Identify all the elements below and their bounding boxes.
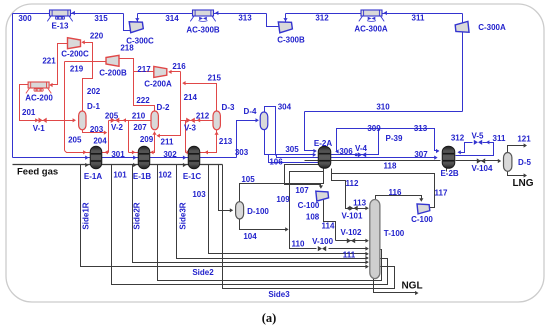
wire stream 305 D-4 bottoms to E-2A	[265, 130, 315, 155]
svg-text:203: 203	[90, 125, 104, 134]
svg-text:215: 215	[208, 74, 222, 83]
wire stream 219 C-200B suction line	[65, 61, 107, 63]
svg-text:307: 307	[414, 150, 428, 159]
wire stream 304 D-4 overhead	[265, 107, 276, 156]
compressor C-200C	[68, 38, 81, 49]
separator D-100	[236, 202, 244, 219]
air cooler AC-300A	[359, 10, 384, 21]
wire stream 108 C-100 outlet	[324, 200, 336, 241]
svg-text:E-1A: E-1A	[84, 172, 102, 181]
svg-text:(a): (a)	[262, 311, 277, 325]
wire stream 221 C-200C discharge to AC-200	[51, 44, 68, 85]
svg-text:107: 107	[295, 186, 309, 195]
svg-text:221: 221	[42, 57, 56, 66]
svg-text:101: 101	[113, 171, 127, 180]
svg-text:309: 309	[367, 124, 381, 133]
valve V-100	[318, 246, 322, 251]
separator D-4	[260, 112, 268, 130]
wire stream 203 D-1 bottoms	[83, 130, 106, 133]
svg-text:T-100: T-100	[384, 229, 405, 238]
svg-text:311: 311	[493, 134, 506, 143]
svg-text:NGL: NGL	[401, 280, 422, 291]
wire stream 310 drop to E-2A	[305, 112, 316, 151]
wire LNG product line	[508, 172, 525, 176]
svg-text:306: 306	[339, 147, 353, 156]
svg-text:110: 110	[292, 240, 305, 249]
valve V-1	[35, 118, 38, 122]
wire stream 306 E-2A to V-4 and riser to header	[331, 129, 379, 155]
svg-text:V-1: V-1	[33, 124, 46, 133]
svg-text:Side3: Side3	[268, 290, 290, 299]
svg-text:218: 218	[120, 44, 134, 53]
wire stream 204 into E-1A loop	[65, 151, 109, 153]
svg-text:Side2: Side2	[192, 268, 214, 277]
svg-text:E-1C: E-1C	[183, 172, 201, 181]
svg-text:105: 105	[241, 175, 255, 184]
svg-text:D-100: D-100	[247, 207, 269, 216]
wire stream 209 D-2 bottoms riser	[154, 132, 156, 136]
svg-text:312: 312	[315, 14, 329, 23]
wire stream 307 long line to E-2B	[277, 155, 437, 158]
svg-text:P-39: P-39	[386, 134, 403, 143]
svg-text:305: 305	[285, 145, 299, 154]
wire stream 104 D-100 bottoms	[240, 219, 288, 230]
wire stream 114-V-102 line to T-100	[336, 240, 368, 242]
wire stream 118 LNG line E-2A to E-2B	[305, 160, 441, 162]
wire E-2B to V-104 to D-5	[456, 160, 500, 162]
svg-text:AC-300A: AC-300A	[354, 25, 388, 34]
svg-text:117: 117	[435, 189, 448, 198]
compressor C-100 lower	[417, 203, 430, 214]
wire stream 105 D-100 overhead to E-2A	[240, 169, 324, 202]
expander C-100 upper	[316, 190, 329, 201]
svg-text:118: 118	[384, 162, 397, 171]
svg-text:300: 300	[18, 14, 32, 23]
wire stream 212 V-3 line	[181, 120, 213, 122]
svg-text:209: 209	[140, 135, 154, 144]
svg-text:AC-300B: AC-300B	[186, 26, 220, 35]
wire side reboiler return E-1A to T-100	[81, 165, 368, 267]
svg-text:108: 108	[306, 213, 320, 222]
compressor C-300C	[129, 20, 143, 33]
svg-text:C-200C: C-200C	[61, 50, 89, 59]
svg-text:211: 211	[161, 138, 174, 147]
svg-text:C-100: C-100	[298, 201, 320, 210]
wire E-1C right side line to T-100	[209, 165, 368, 254]
svg-text:304: 304	[278, 102, 292, 111]
svg-text:Feed gas: Feed gas	[17, 166, 58, 177]
svg-text:311: 311	[412, 14, 425, 23]
svg-text:210: 210	[132, 111, 146, 120]
svg-text:303: 303	[235, 148, 249, 157]
svg-text:C-300A: C-300A	[478, 23, 506, 32]
svg-text:Side1R: Side1R	[82, 202, 91, 229]
svg-text:V-102: V-102	[341, 228, 362, 237]
svg-text:LNG: LNG	[512, 178, 533, 189]
svg-text:205: 205	[105, 111, 119, 120]
wire stream 219/205 vertical	[64, 62, 66, 151]
svg-text:302: 302	[163, 150, 177, 159]
wire drop from V-3 line to E-1C	[185, 121, 187, 153]
svg-text:212: 212	[196, 112, 210, 121]
wire C-300B discharge riser	[285, 14, 287, 22]
wire Feed gas line through E-1A/B/C	[13, 164, 223, 166]
svg-text:104: 104	[243, 232, 257, 241]
svg-text:V-2: V-2	[111, 123, 124, 132]
wire stream 217 C-200A discharge	[134, 71, 154, 73]
wire stream 310 suction riser of C-300A	[462, 33, 464, 112]
air cooler AC-200	[26, 82, 51, 93]
wire stream 310 horizontal	[305, 111, 463, 113]
svg-text:314: 314	[165, 14, 179, 23]
wire stream 213 D-3 bottoms to E-1C loop	[186, 130, 217, 153]
svg-text:315: 315	[94, 14, 108, 23]
svg-text:222: 222	[136, 96, 150, 105]
wire left edge downcomer 300	[12, 14, 14, 158]
wire stream 107 E-2A to C-100 expander	[285, 165, 321, 188]
svg-text:216: 216	[172, 62, 186, 71]
wire stream 116 T-100 overhead to C-100	[376, 196, 422, 201]
exchanger E-1C	[188, 146, 200, 169]
heat exchanger E-13	[47, 10, 72, 21]
svg-text:D-2: D-2	[157, 103, 170, 112]
wire stream 205-210 V-2 line	[109, 120, 151, 122]
svg-text:202: 202	[87, 87, 101, 96]
exchanger E-2B	[442, 146, 455, 168]
svg-text:214: 214	[184, 93, 198, 102]
wire Side3 draw loop	[223, 165, 395, 289]
svg-text:204: 204	[93, 137, 107, 146]
svg-text:205: 205	[68, 135, 82, 144]
svg-text:114: 114	[322, 222, 335, 231]
svg-text:V-104: V-104	[472, 164, 493, 173]
wire stream 313-312-311 top line	[286, 13, 463, 15]
wire stream 201 AC-200 to V-1 to D-1	[20, 85, 75, 121]
svg-text:220: 220	[90, 32, 104, 41]
wire E-2B bottom stub	[446, 169, 448, 172]
wire stream 216 C-200A suction	[170, 71, 181, 73]
svg-text:116: 116	[389, 188, 402, 197]
svg-text:AC-200: AC-200	[25, 94, 53, 103]
svg-text:213: 213	[219, 137, 233, 146]
svg-text:121: 121	[517, 134, 531, 143]
svg-text:E-13: E-13	[52, 22, 69, 31]
wire stream 109-110 E-2A to V-100	[290, 172, 324, 249]
separator D-2	[151, 111, 158, 130]
wire side reboiler return E-1C to T-100	[177, 165, 368, 259]
wire stream 103 to D-100	[219, 165, 232, 211]
svg-text:C-200B: C-200B	[99, 69, 127, 78]
valve V-101	[349, 206, 353, 211]
separator D-5	[504, 153, 512, 172]
wire stream 309-313 header	[337, 129, 439, 152]
wire stream 121 D-5 overhead	[508, 146, 525, 153]
wire stream 112 E-2A to V-101	[332, 169, 349, 209]
valve V-5	[474, 140, 478, 145]
separator D-1	[79, 111, 86, 130]
valve V-3	[186, 118, 190, 123]
svg-text:D-5: D-5	[518, 158, 531, 167]
svg-text:106: 106	[269, 158, 283, 167]
wire stream 101 feed split loop	[112, 165, 388, 285]
column T-100	[370, 200, 380, 279]
air cooler AC-300B	[190, 10, 215, 21]
svg-text:111: 111	[343, 250, 356, 259]
wire NGL product from T-100	[374, 279, 417, 293]
svg-text:112: 112	[346, 179, 359, 188]
wire stream 207 drop from V-2 line to E-1B	[128, 121, 130, 153]
svg-text:C-300B: C-300B	[277, 36, 305, 45]
separator D-3	[213, 111, 220, 130]
svg-text:Side3R: Side3R	[179, 202, 188, 229]
svg-text:109: 109	[276, 195, 290, 204]
wire stream 222 C-200B discharge to D-2	[119, 59, 155, 111]
exchanger E-1A	[90, 146, 102, 169]
wire C-300C suction drop	[124, 14, 131, 31]
svg-text:313: 313	[414, 124, 428, 133]
svg-text:301: 301	[111, 150, 125, 159]
wire stream 214 vertical	[180, 72, 182, 121]
wire stream 303 riser to D-4	[237, 121, 258, 158]
wire C-300B suction drop	[267, 14, 281, 27]
svg-text:E-2A: E-2A	[314, 139, 332, 148]
svg-text:Side2R: Side2R	[133, 202, 142, 229]
wire stream 117 C-100 to E-2A line	[332, 174, 435, 208]
svg-text:103: 103	[192, 190, 206, 199]
svg-text:313: 313	[238, 14, 252, 23]
svg-text:C-200A: C-200A	[144, 80, 172, 89]
svg-text:310: 310	[376, 103, 390, 112]
wire stream 312 V-5 to E-2B	[459, 143, 473, 153]
svg-text:E-1B: E-1B	[133, 172, 151, 181]
svg-text:V-5: V-5	[471, 132, 484, 141]
svg-text:207: 207	[133, 123, 147, 132]
svg-text:217: 217	[137, 65, 151, 74]
compressor C-300B	[278, 20, 292, 33]
wire stream 204 drop from V-2 junction	[108, 121, 110, 153]
svg-text:C-100: C-100	[411, 215, 433, 224]
wire stream 106 to E-2A	[269, 155, 319, 163]
svg-text:219: 219	[70, 65, 84, 74]
wire side reboiler return E-1B to T-100	[133, 165, 368, 263]
valve V-102	[347, 238, 351, 243]
svg-text:201: 201	[22, 108, 36, 117]
svg-text:V-101: V-101	[342, 212, 363, 221]
exchanger E-1B	[138, 146, 150, 169]
wire stream 315-314 top line	[138, 13, 267, 15]
svg-text:V-100: V-100	[312, 237, 333, 246]
svg-text:D-4: D-4	[244, 107, 257, 116]
exchanger E-2A	[318, 146, 331, 168]
valve V-4	[358, 152, 362, 157]
svg-text:V-4: V-4	[355, 144, 368, 153]
svg-text:312: 312	[451, 134, 465, 143]
wire C-300C discharge riser	[137, 14, 139, 22]
wire stream 202-220 D-1 overhead to C-200C	[83, 43, 93, 111]
compressor C-300A	[455, 21, 469, 33]
valve V-2	[111, 118, 115, 123]
svg-text:102: 102	[158, 171, 172, 180]
wire stream 215 D-3 overhead	[184, 84, 217, 111]
wire E-1B loop	[129, 136, 155, 153]
compressor C-200B	[106, 55, 119, 66]
wire stream 102 feed split loop Side2	[158, 165, 382, 281]
wire stream 211 junction line	[158, 121, 181, 136]
svg-text:E-2B: E-2B	[440, 169, 458, 178]
svg-text:V-3: V-3	[184, 124, 197, 133]
svg-text:D-3: D-3	[222, 103, 235, 112]
compressor C-200A	[154, 66, 167, 77]
wire stream 111 to T-100	[329, 248, 368, 250]
svg-text:D-1: D-1	[87, 102, 100, 111]
wire stream 113 V-101 to T-100	[349, 208, 368, 210]
valve V-104	[477, 158, 481, 163]
wire stream 311 E-2B riser to V-5	[456, 143, 494, 156]
wire main blue line 301-302-303 through E-1A/B/C	[13, 157, 237, 159]
wire C-300A discharge	[462, 14, 464, 23]
wire stream 300 top line E-13 to left edge	[13, 13, 124, 15]
svg-text:113: 113	[353, 199, 366, 208]
